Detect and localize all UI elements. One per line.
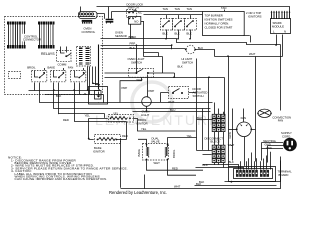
svg-text:FAN: FAN bbox=[278, 119, 283, 123]
wire dual valve top bbox=[138, 138, 197, 145]
wire disconnect top bbox=[215, 103, 224, 115]
svg-text:WHT: WHT bbox=[249, 52, 256, 56]
svg-text:BLK: BLK bbox=[129, 35, 134, 39]
wire BLU bbox=[133, 107, 211, 112]
svg-text:BLK: BLK bbox=[175, 31, 180, 35]
dual valve bbox=[137, 136, 176, 165]
label OVEN CONTROL bbox=[82, 27, 96, 34]
watermark circle bbox=[132, 82, 172, 122]
wire door lock to rail bbox=[130, 25, 132, 39]
ignition switch SW2 bbox=[173, 7, 185, 39]
svg-text:WHT: WHT bbox=[228, 143, 235, 147]
fan motor bbox=[228, 116, 252, 138]
wire oven control to rails bbox=[97, 14, 105, 19]
wire disconnect bottom bbox=[215, 132, 224, 168]
wire fan top bbox=[243, 109, 245, 122]
wire hi-limit left drop bbox=[105, 73, 175, 78]
hi-limit switch bbox=[178, 45, 204, 68]
svg-text:TAN: TAN bbox=[175, 7, 180, 11]
wire labels near disconnect bbox=[199, 143, 234, 184]
svg-text:BLK: BLK bbox=[130, 46, 135, 50]
control assembly dashed box bbox=[5, 17, 103, 95]
vertical right wires bbox=[196, 59, 198, 151]
svg-text:COMM: COMM bbox=[58, 63, 68, 67]
wire bus below relays bbox=[29, 89, 104, 103]
oven light lamp bbox=[141, 89, 154, 117]
wire middle horizontals bbox=[40, 103, 213, 140]
svg-text:PRP: PRP bbox=[149, 89, 155, 93]
svg-text:SWITCH: SWITCH bbox=[193, 94, 204, 98]
svg-text:BROIL: BROIL bbox=[27, 65, 36, 69]
svg-text:YEL: YEL bbox=[113, 112, 119, 116]
svg-text:BAKE: BAKE bbox=[137, 149, 141, 157]
label 2 or 4 top ignitors bbox=[246, 11, 262, 19]
svg-text:YEL: YEL bbox=[141, 127, 147, 131]
svg-text:PRP: PRP bbox=[122, 86, 128, 90]
door lock switch bbox=[127, 3, 145, 25]
svg-text:Rendered by LeadVenture, Inc.: Rendered by LeadVenture, Inc. bbox=[109, 190, 167, 195]
svg-text:MODULE: MODULE bbox=[272, 25, 284, 29]
wire spark module N bbox=[282, 35, 284, 57]
svg-text:VALVE: VALVE bbox=[151, 140, 160, 144]
wire fan bottom bbox=[244, 137, 246, 166]
wire bottom left vertical bbox=[120, 139, 122, 188]
door actuated switch bbox=[161, 87, 208, 105]
svg-text:BLK: BLK bbox=[187, 31, 192, 35]
ignition switch SW4 wire TAN bbox=[221, 6, 226, 11]
bake ignitor bbox=[88, 134, 128, 154]
svg-text:N: N bbox=[284, 30, 286, 34]
wire bottom WHT bbox=[121, 157, 281, 189]
svg-text:BLK: BLK bbox=[229, 160, 234, 164]
svg-text:IGNITOR: IGNITOR bbox=[93, 150, 105, 154]
top rail A bbox=[97, 7, 290, 13]
svg-text:BLK: BLK bbox=[197, 116, 202, 120]
terminal board bbox=[229, 167, 293, 182]
wire BLK to disconnect bbox=[197, 116, 213, 120]
connector small dashed box bbox=[9, 72, 21, 79]
svg-text:BLK: BLK bbox=[199, 180, 204, 184]
svg-text:IGNITORS: IGNITORS bbox=[248, 15, 262, 19]
relay FAN bbox=[68, 65, 86, 121]
ribbon connector J1 bbox=[7, 21, 26, 48]
svg-text:BOARD: BOARD bbox=[279, 173, 289, 177]
svg-text:BLK: BLK bbox=[203, 163, 208, 167]
svg-text:IGNITOR: IGNITOR bbox=[136, 122, 148, 126]
svg-text:CAN CAUSE IMPROPER AND DANGERO: CAN CAUSE IMPROPER AND DANGEROUS OPERATI… bbox=[15, 177, 108, 181]
wire bottom rail bbox=[225, 161, 281, 183]
svg-text:SWITCH: SWITCH bbox=[182, 61, 193, 65]
svg-text:SWITCH: SWITCH bbox=[128, 6, 139, 10]
svg-text:FAN: FAN bbox=[68, 65, 73, 69]
wire fan left bbox=[229, 129, 237, 131]
wire bottom BLK bbox=[195, 182, 277, 186]
ribbon connector J2 bbox=[38, 21, 55, 48]
svg-text:WHT: WHT bbox=[174, 185, 181, 189]
svg-text:CONTROL: CONTROL bbox=[82, 30, 96, 34]
svg-text:WHT: WHT bbox=[154, 161, 161, 165]
connector block P3 (hatched) bbox=[77, 47, 91, 67]
spark module U1 bbox=[271, 19, 291, 34]
ignition switch SW3 bbox=[185, 7, 197, 39]
svg-text:RED: RED bbox=[122, 134, 128, 138]
plug P2 bbox=[263, 138, 297, 152]
svg-text:RED: RED bbox=[172, 166, 178, 170]
wire WHT right bbox=[215, 52, 283, 57]
relay BROIL bbox=[27, 65, 47, 102]
svg-text:SENSOR: SENSOR bbox=[115, 34, 127, 38]
svg-text:RELAYS: RELAYS bbox=[41, 52, 55, 56]
svg-text:BLU: BLU bbox=[170, 108, 175, 112]
label top burner note bbox=[203, 12, 251, 43]
wire mid bus 77 bbox=[105, 76, 225, 150]
svg-text:CONNECTOR: CONNECTOR bbox=[23, 38, 41, 42]
wire oven light sw bottom bbox=[147, 75, 149, 98]
spark module pins bbox=[272, 13, 290, 20]
svg-text:NC: NC bbox=[138, 10, 142, 14]
wire hi-limit right to WHT bbox=[196, 50, 215, 57]
oven light switch bbox=[128, 57, 154, 82]
relay BAKE bbox=[48, 65, 66, 114]
svg-text:WHT: WHT bbox=[137, 78, 144, 82]
svg-text:BAKE: BAKE bbox=[48, 65, 56, 69]
wire oven light sw feed bbox=[144, 22, 163, 74]
svg-text:LIGHT: LIGHT bbox=[141, 113, 150, 117]
wire plug lines bbox=[262, 143, 284, 149]
label CONTROL CONNECTOR bbox=[22, 34, 41, 42]
wire WHT drop bbox=[120, 78, 142, 103]
wire terminal feeds bbox=[196, 152, 271, 170]
convection fan bbox=[257, 109, 291, 123]
svg-text:TAN: TAN bbox=[221, 6, 226, 10]
relay coil K1 bbox=[57, 47, 72, 67]
supply cord label bbox=[281, 131, 292, 139]
svg-text:BROIL: BROIL bbox=[172, 149, 176, 158]
wire bottom RED bbox=[147, 160, 204, 171]
wire verticals mid bbox=[87, 45, 100, 95]
oven sensor S1 bbox=[106, 7, 114, 26]
wire ignition bus BLK rail1 bbox=[101, 35, 281, 45]
svg-text:TAN: TAN bbox=[163, 7, 168, 11]
wire rail B2 bbox=[144, 14, 203, 16]
wire YEL bus + broil ignitor bbox=[85, 112, 196, 139]
svg-text:RED: RED bbox=[63, 118, 69, 122]
svg-text:YEL: YEL bbox=[187, 134, 193, 138]
svg-text:GRN: GRN bbox=[228, 132, 232, 138]
svg-text:YEL: YEL bbox=[85, 114, 91, 118]
ignition switch SW1 bbox=[161, 7, 173, 39]
oven control comb bbox=[82, 20, 93, 24]
disconnect block grid2 bbox=[212, 145, 225, 162]
top rail B bbox=[112, 11, 203, 13]
NOTICE text bbox=[8, 156, 128, 182]
svg-text:TAN: TAN bbox=[187, 7, 192, 11]
svg-text:CLOSED FOR START: CLOSED FOR START bbox=[205, 25, 233, 29]
label OVEN SENSOR bbox=[115, 30, 127, 37]
wire bottom-left runs bbox=[197, 151, 213, 155]
oven control connector P1 bbox=[79, 7, 98, 19]
svg-text:BLK: BLK bbox=[163, 31, 168, 35]
svg-text:BLK: BLK bbox=[178, 64, 183, 68]
wire oven light sw top bbox=[136, 46, 138, 73]
wire bottom mid bbox=[168, 160, 197, 176]
thermal fuse box bbox=[89, 87, 108, 105]
disconnect block grid1 bbox=[212, 114, 225, 131]
svg-text:WHT: WHT bbox=[168, 100, 175, 104]
wire rail2 PRP bbox=[101, 42, 173, 50]
wire spark module L bbox=[276, 35, 278, 46]
svg-text:BLK: BLK bbox=[56, 94, 61, 98]
wire rail3 BLK bbox=[101, 46, 186, 50]
